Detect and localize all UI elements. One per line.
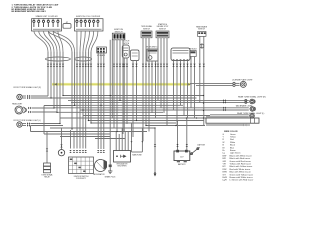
svg-text:W: W: [223, 142, 225, 144]
yellow wire core: [52, 83, 190, 85]
yellow wire connector left: [54, 83, 57, 85]
license plate light: [240, 81, 246, 87]
front brake switch: [131, 50, 140, 61]
license light connector: [233, 82, 235, 84]
wire color legend: [223, 134, 254, 182]
svg-text:CONTINUITY: CONTINUITY: [76, 178, 87, 180]
wire to flasher relay: [46, 149, 48, 152]
wire bundle from J1: [34, 31, 63, 52]
svg-text:RECTIFIER: RECTIFIER: [118, 166, 128, 168]
rear brake switch wires: [199, 36, 201, 56]
svg-text:G/R: G/R: [223, 161, 227, 163]
front turn signal R: [17, 94, 26, 99]
svg-text:SWITCH: SWITCH: [122, 43, 129, 45]
front turn signal L connector: [27, 122, 30, 124]
headlight: [15, 106, 26, 114]
svg-text:Black: Black: [230, 145, 235, 147]
svg-text:Green: Green: [230, 134, 236, 136]
clutch switch: [122, 45, 129, 58]
tail light connectors: [223, 107, 226, 109]
harness vertical wires: [31, 38, 204, 174]
wire pair between grommets: [48, 31, 74, 52]
grommet oval 2: [75, 57, 92, 61]
svg-text:Br/W: Br/W: [223, 177, 228, 179]
rear turn signal light L: [250, 114, 255, 119]
rear turn R connectors: [223, 99, 226, 101]
horn switch: [147, 49, 158, 61]
turn signal switch: [141, 31, 152, 38]
spark plug: [108, 165, 112, 174]
connector J1: [32, 18, 62, 31]
rear harness box: [206, 118, 259, 123]
svg-text:SWITCH: SWITCH: [159, 28, 166, 30]
svg-text:IGNITION COIL COUPLER: IGNITION COIL COUPLER: [76, 16, 101, 18]
horn: [58, 150, 64, 156]
svg-text:WIRE COLOR: WIRE COLOR: [224, 131, 238, 133]
rear turn R wires: [223, 99, 249, 101]
svg-text:B/W: B/W: [223, 155, 227, 157]
connector J2: [75, 18, 104, 31]
harness horizontal wires: [31, 96, 223, 139]
svg-text:Brown: Brown: [230, 150, 236, 152]
svg-text:SWITCH: SWITCH: [143, 28, 150, 30]
junction dots: [50, 95, 204, 132]
svg-text:Bl/W: Bl/W: [223, 172, 227, 174]
spark plug wire: [109, 155, 111, 165]
battery: [174, 150, 190, 163]
svg-text:CLUTCH: CLUTCH: [122, 41, 130, 43]
front turn signal R connector: [27, 95, 30, 97]
connector 6P mid: [97, 47, 107, 53]
svg-text:ENGINE STOP: ENGINE STOP: [157, 26, 169, 28]
headlight wires: [32, 107, 55, 109]
svg-text:Y/R: Y/R: [223, 164, 227, 166]
rear turn signal light R: [250, 99, 255, 104]
starter switch: [156, 31, 169, 38]
front turn signal R wires: [31, 95, 49, 97]
svg-text:Red: Red: [230, 139, 234, 141]
rear turn L wires: [210, 114, 249, 116]
headlight connectors: [28, 107, 31, 109]
connector 2P: [190, 51, 196, 57]
svg-text:Br: Br: [223, 150, 225, 152]
svg-text:Yellow: Yellow: [230, 137, 236, 139]
main fuse loop: [131, 141, 144, 152]
switch continuity table: [69, 157, 94, 174]
battery wires: [176, 144, 178, 147]
svg-text:R/W: R/W: [223, 169, 227, 171]
flasher relay: [44, 163, 51, 173]
wire bundle from J2: [77, 31, 98, 52]
yellow wire: [52, 83, 190, 86]
ground wire: [154, 144, 156, 147]
horn connector: [60, 145, 62, 148]
fuse 15A: [190, 144, 206, 155]
license light wires: [190, 82, 233, 84]
inline connectors band: [47, 64, 205, 67]
coupler 4P: [63, 24, 71, 29]
svg-text:IGNITION: IGNITION: [114, 29, 123, 31]
svg-text:Lg: Lg: [223, 153, 225, 155]
yellow wire connector right: [189, 83, 192, 85]
front turn signal L: [17, 122, 26, 127]
rear lower wire: [206, 124, 243, 126]
svg-text:Lg/R: Lg/R: [223, 180, 228, 182]
alternator connectors: [97, 150, 105, 153]
tail light wires: [223, 107, 249, 109]
handlebar switch housing: [171, 48, 190, 61]
ground symbol: [154, 174, 157, 177]
wire down from turn L: [30, 126, 32, 132]
rear brake switch: [198, 32, 207, 49]
svg-text:B/R: B/R: [223, 158, 227, 160]
grommet oval 1: [45, 57, 70, 61]
front turn signal L wires: [31, 123, 61, 125]
tail/brake light: [250, 107, 255, 112]
svg-text:SWITCH: SWITCH: [198, 29, 205, 31]
alternator: [95, 160, 108, 172]
regulator rectifier: [114, 151, 131, 163]
switch table connectors: [69, 150, 87, 153]
svg-text:HORN SWITCH: HORN SWITCH: [146, 47, 159, 49]
ignition switch body: [112, 33, 125, 40]
